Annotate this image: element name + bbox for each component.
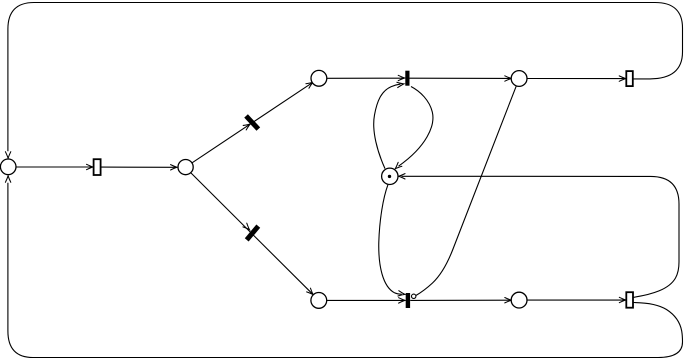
wire big bottom loop from T5 to P1	[8, 183, 683, 358]
arc P2 to P6 through T3	[191, 173, 313, 295]
arrowhead into P5 from right	[398, 174, 405, 179]
arrowhead into P4	[505, 76, 512, 81]
arc P1 to T1	[16, 166, 92, 168]
arc Ttop to P5 (balloon right)	[399, 87, 433, 167]
arrowhead into Ttop from balloon	[397, 81, 404, 87]
arrowhead into P3	[306, 80, 314, 88]
arc P6 to Tbot	[327, 299, 405, 301]
place P4	[511, 71, 527, 87]
wire right loop from T5 to P5	[402, 176, 680, 297]
arrowhead into Tbot from P5	[398, 291, 405, 297]
place P5 (marked with token)	[382, 168, 398, 184]
transition T2 (diagonal bar)	[244, 114, 260, 131]
arrowhead into P1 top	[5, 152, 10, 159]
place P6	[311, 293, 327, 309]
arrowhead before T2	[243, 122, 251, 130]
transition T4 (hollow rectangle)	[626, 71, 633, 86]
arrowhead into P6	[307, 288, 315, 296]
arc P3 to Ttop	[327, 77, 404, 79]
arc P5 to Tbot (left bulge curve)	[379, 185, 402, 295]
place P3	[311, 70, 327, 86]
arc Ttop to P4	[409, 77, 510, 79]
transition T3 (diagonal bar)	[245, 224, 260, 241]
arc P2 to P3 through T2	[192, 82, 313, 163]
transition Tbot (filled bar)	[406, 293, 410, 308]
arrowhead into T5	[619, 297, 626, 302]
arrowhead into P2	[171, 165, 178, 170]
transition Ttop (filled bar)	[405, 71, 409, 86]
arrowhead into P1 bottom	[5, 176, 10, 183]
place P2	[178, 160, 193, 175]
arrowhead into Tbot horizontal	[399, 298, 406, 303]
arc P5 to Ttop (balloon left)	[374, 84, 401, 169]
arc T1 to P2	[101, 166, 177, 168]
inhibitor circle at Tbot	[412, 294, 416, 298]
wire big top loop from T4 to P1	[8, 3, 683, 152]
arrowhead into Ttop	[398, 75, 405, 80]
place P1	[0, 159, 16, 175]
arrowhead into P7	[505, 298, 512, 303]
token in P5	[388, 175, 391, 178]
place P7	[511, 292, 527, 308]
transition T1 (hollow rectangle)	[94, 159, 101, 175]
arc Tbot to P7	[410, 299, 511, 301]
arrowhead into T4	[619, 76, 626, 81]
arrowhead into T1	[87, 164, 94, 169]
transition T5 (hollow rectangle)	[626, 292, 633, 308]
inhibitor arc P4 to Tbot	[416, 86, 516, 296]
arc P7 to T5	[527, 299, 625, 301]
arrowhead before T3	[243, 223, 251, 231]
arc P4 to T4	[527, 78, 625, 80]
arrowhead into P5 from balloon	[393, 162, 402, 170]
